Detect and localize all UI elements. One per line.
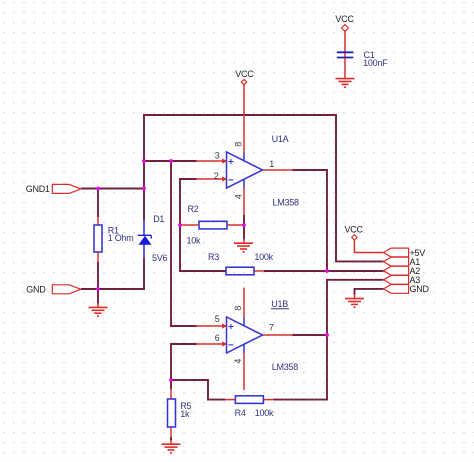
wire GND right tag	[355, 289, 384, 295]
pin lead U1B pin5	[197, 325, 227, 327]
pin lead R1 bottom	[97, 252, 99, 262]
wire GND tag to D1 bottom	[81, 259, 144, 290]
svg-text:GND: GND	[410, 284, 430, 294]
svg-text:8: 8	[234, 142, 244, 147]
pin lead U1B pin4 stub	[243, 353, 245, 390]
port A1	[384, 257, 409, 266]
svg-text:VCC: VCC	[235, 69, 254, 79]
wire R3 right to A2 tag	[264, 270, 384, 272]
junction pin3 wire / top net	[142, 159, 146, 163]
op-amp U1A	[227, 152, 263, 188]
svg-text:1k: 1k	[180, 409, 190, 419]
port GND left	[52, 285, 81, 294]
pin lead U1A pin3	[197, 160, 227, 162]
wire R1 bottom dark	[97, 262, 99, 289]
power VCC U1A	[241, 79, 246, 84]
svg-text:1: 1	[269, 159, 274, 169]
svg-text:R4: R4	[235, 408, 246, 418]
resistor R5	[168, 399, 176, 427]
wire pin3 to pin5 vertical	[171, 161, 197, 326]
pin lead R5 bottom	[170, 427, 172, 437]
wire U1B output	[293, 334, 328, 336]
svg-text:2: 2	[214, 171, 219, 181]
wire pin6 feedback	[171, 344, 197, 380]
svg-text:3: 3	[215, 151, 220, 161]
port +5V	[384, 248, 409, 257]
wire C1 stub (red)	[344, 31, 346, 79]
ground under R1	[89, 307, 108, 316]
wire pin2 feedback to R2/R3	[180, 179, 226, 271]
power VCC top (C1)	[342, 25, 349, 32]
ground under C1	[336, 79, 355, 88]
resistor R3	[226, 267, 254, 275]
svg-text:D1: D1	[153, 214, 164, 224]
wire A3 tag down to R4	[274, 280, 384, 400]
svg-text:6: 6	[215, 333, 220, 343]
svg-text:LM358: LM358	[272, 362, 299, 372]
wire D1 top dark	[143, 189, 145, 221]
pin lead R1 top	[97, 217, 99, 225]
svg-text:100nF: 100nF	[363, 58, 388, 68]
wire VCC to U1A pin8 (red)	[243, 85, 245, 153]
pin lead U1B pin7	[263, 334, 293, 336]
svg-text:5V6: 5V6	[152, 253, 168, 263]
junction R2 left / pin2 net	[178, 223, 182, 227]
junction D1 top / GND1 wire	[142, 187, 146, 191]
port A2	[384, 266, 409, 275]
port A3	[384, 275, 409, 284]
svg-text:GND1: GND1	[26, 184, 50, 194]
capacitor C1	[337, 52, 354, 57]
wire GND junction to ground	[97, 289, 99, 304]
junction pin3 / pin5 branch	[169, 159, 173, 163]
pin lead R4 right	[264, 399, 274, 401]
svg-text:7: 7	[269, 323, 274, 333]
svg-text:U1A: U1A	[272, 134, 289, 144]
svg-text:GND: GND	[26, 284, 46, 294]
pin lead U1B pin6	[197, 343, 227, 345]
pin lead R3 right	[254, 270, 264, 272]
svg-text:100k: 100k	[255, 408, 274, 418]
junction R1 top / GND1 wire	[96, 187, 100, 191]
resistor R2	[199, 221, 227, 229]
port GND right	[384, 285, 409, 294]
wire GND1 tag to D1	[81, 188, 144, 190]
svg-text:1 Ohm: 1 Ohm	[108, 233, 134, 243]
pin lead U1B pin8 stub	[243, 288, 245, 318]
svg-text:100k: 100k	[254, 252, 273, 262]
wire +5V tag to VCC (red)	[354, 241, 383, 253]
ground under U1A pin4	[234, 243, 253, 252]
pin lead U1A pin1	[263, 169, 293, 171]
wire junction to R4 left	[171, 380, 225, 400]
wire U1A pin4 to ground (red)	[243, 188, 245, 216]
diode D1 (zener)	[143, 220, 145, 259]
svg-text:8: 8	[233, 306, 243, 311]
junction U1A out / A2 net	[325, 269, 329, 273]
junction R1 bottom / GND wire	[96, 287, 100, 291]
svg-text:VCC: VCC	[345, 225, 364, 235]
wire top loop GND1 net to A1	[144, 115, 384, 261]
wire node pin3 stub	[144, 160, 197, 162]
pin lead R5 top	[170, 389, 172, 399]
pin lead R2 left	[180, 224, 199, 226]
svg-text:R2: R2	[188, 204, 199, 214]
wire U1A output to A2	[293, 170, 328, 271]
wire junction to R5	[170, 380, 172, 389]
resistor R4	[235, 396, 263, 404]
wire R1 top dark	[97, 189, 99, 218]
svg-text:10k: 10k	[187, 236, 202, 246]
pin lead R4 left	[225, 399, 235, 401]
svg-text:LM358: LM358	[273, 197, 300, 207]
svg-text:4: 4	[234, 194, 244, 199]
port GND1	[52, 184, 81, 193]
svg-text:R3: R3	[208, 252, 219, 262]
junction R2 right / pin4 net	[242, 223, 246, 227]
ground under R5	[162, 444, 181, 453]
junction pin6 net / R5 / R4	[169, 378, 173, 382]
junction U1B out / A3 net	[325, 333, 329, 337]
svg-text:U1B: U1B	[271, 299, 288, 309]
pin lead U1A pin2	[197, 178, 227, 180]
power VCC right	[352, 235, 357, 240]
svg-text:4: 4	[233, 359, 243, 364]
ground right connector	[345, 299, 364, 308]
pin lead R2 right	[227, 224, 244, 226]
svg-text:5: 5	[215, 314, 220, 324]
svg-text:VCC: VCC	[335, 14, 354, 24]
resistor R1	[94, 225, 102, 252]
op-amp U1B	[227, 317, 263, 353]
